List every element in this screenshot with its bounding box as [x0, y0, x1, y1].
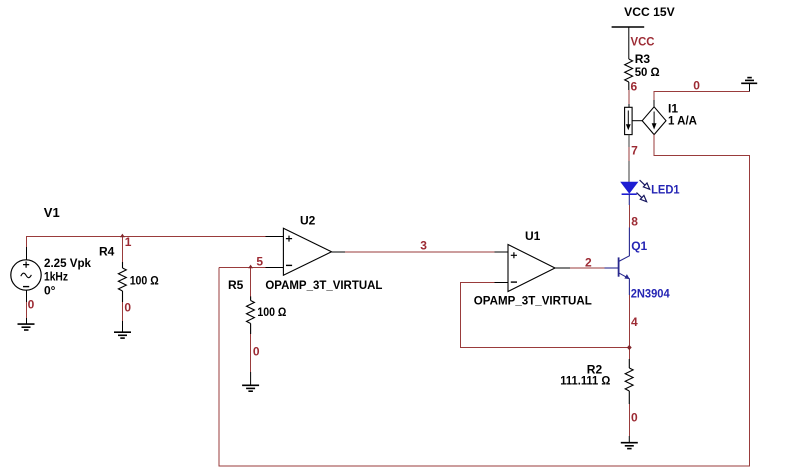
wire V1 to ground: [26, 302, 28, 318]
voltage source V1: [11, 247, 41, 302]
svg-text:LED1: LED1: [651, 183, 680, 197]
svg-text:111.111 Ω: 111.111 Ω: [560, 374, 610, 388]
ground (top right, flipped): [741, 78, 757, 84]
wire I1 top to ground net 0: [654, 91, 750, 100]
svg-text:0: 0: [693, 79, 700, 93]
svg-text:0: 0: [124, 301, 131, 315]
ground (R4): [114, 321, 131, 338]
svg-text:V1: V1: [44, 205, 60, 220]
power VCC rail: [612, 27, 645, 59]
svg-text:R4: R4: [99, 245, 115, 259]
svg-text:OPAMP_3T_VIRTUAL: OPAMP_3T_VIRTUAL: [265, 278, 382, 292]
svg-text:OPAMP_3T_VIRTUAL: OPAMP_3T_VIRTUAL: [474, 294, 592, 308]
wire R3 to I1 sense (node 6): [628, 90, 630, 104]
svg-text:U2: U2: [300, 213, 316, 227]
svg-text:U1: U1: [525, 229, 541, 243]
wire Q1 emitter to node4: [628, 295, 630, 359]
svg-text:100 Ω: 100 Ω: [257, 305, 286, 319]
link sense to diamond: [632, 120, 642, 122]
svg-text:50 Ω: 50 Ω: [635, 65, 660, 79]
svg-text:1: 1: [125, 235, 132, 249]
svg-text:5: 5: [256, 254, 263, 268]
op-amp U1: [495, 245, 571, 292]
svg-text:1kHz: 1kHz: [44, 270, 68, 284]
svg-text:0: 0: [253, 344, 260, 358]
svg-text:4: 4: [631, 315, 638, 329]
svg-text:2: 2: [585, 255, 592, 269]
ground (V1): [18, 318, 35, 330]
current sense element of I1: [625, 107, 633, 134]
resistor R2: [625, 359, 633, 404]
svg-text:1 A/A: 1 A/A: [668, 114, 697, 128]
svg-text:VCC: VCC: [631, 34, 655, 48]
svg-text:0: 0: [28, 298, 35, 312]
wire U1- feedback from emitter: [461, 283, 630, 348]
wire node 7 column (sense to LED): [628, 147, 630, 161]
resistor R4: [118, 262, 126, 302]
wire U1 out to Q1 base: [570, 267, 605, 269]
node 1 junction: [120, 234, 125, 238]
transistor Q1 2N3904: [605, 228, 630, 296]
LED LED1: [621, 180, 650, 205]
op-amp U2: [266, 228, 346, 275]
wire R5 to ground: [250, 334, 252, 372]
svg-text:Q1: Q1: [631, 239, 647, 253]
svg-text:0: 0: [631, 411, 638, 425]
current source I1 diamond: [642, 107, 666, 135]
svg-text:3: 3: [420, 239, 427, 253]
wire U2 out to U1+: [345, 251, 495, 253]
wire R2 to ground: [628, 404, 630, 436]
svg-text:0°: 0°: [44, 284, 56, 298]
svg-text:2.25 Vpk: 2.25 Vpk: [44, 256, 91, 270]
ground (R2): [621, 436, 638, 449]
svg-text:7: 7: [631, 144, 638, 158]
wire I1 bottom feedback loop: [219, 135, 750, 467]
resistor R3: [625, 59, 633, 90]
wire net5 to U2-: [219, 268, 265, 297]
svg-text:VCC 15V: VCC 15V: [624, 5, 675, 19]
ground (R5): [242, 372, 259, 391]
wire LED to Q1 collector (node 8): [628, 205, 630, 228]
wire R4 to ground: [122, 302, 124, 321]
resistor R5: [247, 296, 255, 334]
svg-text:R5: R5: [228, 278, 244, 292]
svg-text:8: 8: [631, 215, 638, 229]
svg-text:2N3904: 2N3904: [631, 286, 670, 300]
svg-text:100 Ω: 100 Ω: [130, 273, 159, 287]
wire net1 V1 to U2+: [27, 237, 266, 263]
svg-text:6: 6: [631, 80, 638, 94]
node 4 junction: [627, 345, 632, 350]
node 5 junction: [248, 265, 253, 269]
